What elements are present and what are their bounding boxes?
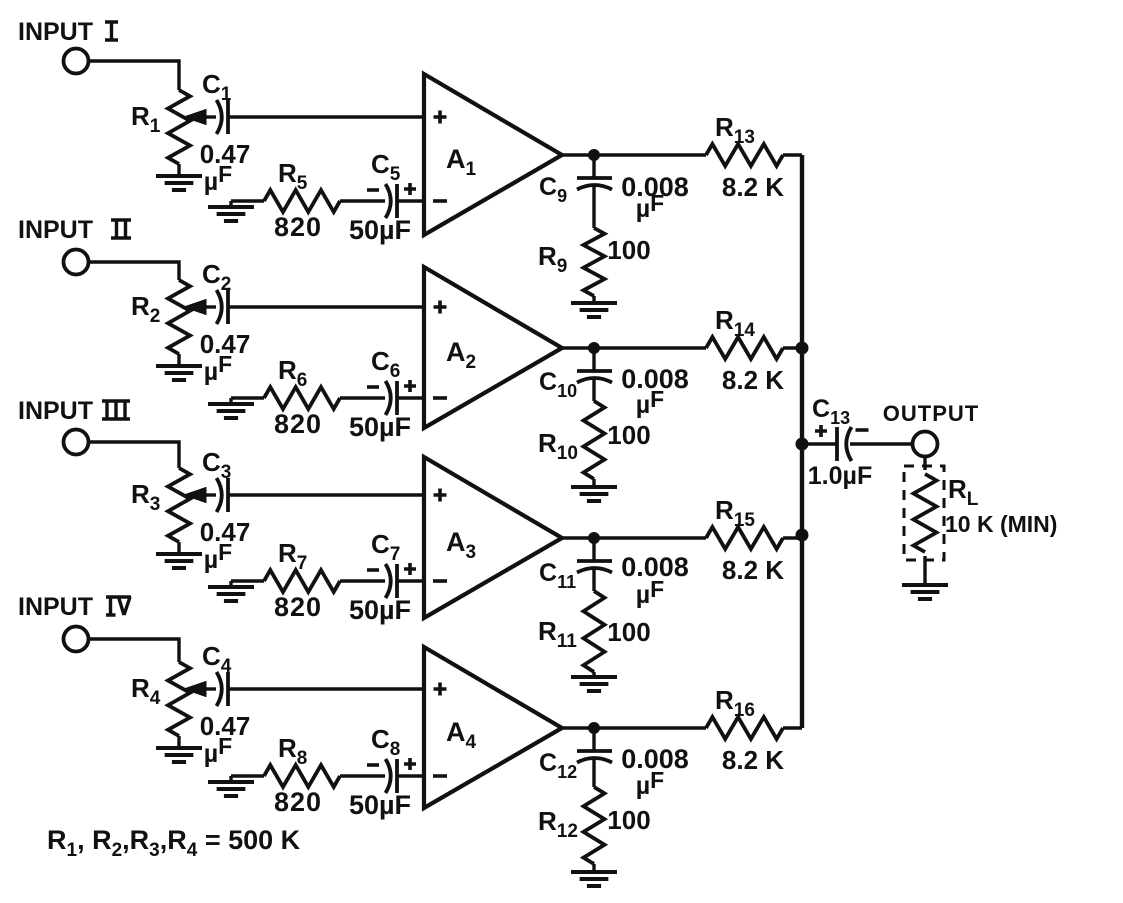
output terminal OUTPUT — [883, 401, 979, 457]
capacitor C10 (0.008 uF) — [539, 348, 689, 419]
resistor R8 (820) — [264, 733, 340, 817]
wire: C2 to A2 + input — [228, 305, 424, 308]
svg-text:100: 100 — [607, 235, 650, 265]
svg-text:10 K (MIN): 10 K (MIN) — [945, 511, 1057, 537]
resistor R15 (8.2K) — [706, 495, 784, 585]
resistor R7 (820) — [264, 538, 340, 622]
ground (below RL) — [902, 556, 948, 599]
svg-text:1.0µF: 1.0µF — [808, 462, 872, 490]
op-amp A4 — [424, 647, 562, 808]
ground (left of R7) — [208, 581, 254, 601]
svg-text:8.2 K: 8.2 K — [722, 365, 784, 395]
ground (below R3) — [156, 542, 202, 568]
resistor R9 (100) — [538, 228, 651, 296]
node: A1 output junction — [588, 149, 600, 161]
wire: input IV to R4 top — [89, 639, 179, 662]
ground (below R4) — [156, 736, 202, 762]
svg-text:INPUT: INPUT — [18, 18, 93, 46]
capacitor C1 (0.47 uF) — [200, 69, 251, 196]
ground (left of R8) — [208, 776, 254, 796]
wire: R1 wiper to C1 — [204, 115, 216, 118]
ground (below R11) — [571, 672, 617, 691]
wire: R3 wiper to C3 — [204, 493, 216, 496]
svg-text:50µF: 50µF — [349, 595, 411, 625]
wire: C13 to output terminal — [850, 442, 913, 445]
op-amp A2 — [424, 267, 562, 428]
resistor R5 (820) — [264, 158, 340, 242]
svg-text:820: 820 — [274, 592, 322, 622]
node: A4 output junction — [588, 722, 600, 734]
wire: C5 to A1 - input — [397, 199, 424, 202]
wire: C1 to A1 + input — [228, 115, 424, 118]
svg-text:50µF: 50µF — [349, 215, 411, 245]
wire: R13 to summing bus — [783, 153, 802, 156]
wire: R4 wiper to C4 — [204, 687, 216, 690]
op-amp A3 — [424, 457, 562, 618]
svg-text:8.2 K: 8.2 K — [722, 555, 784, 585]
input terminal INPUT IV — [18, 593, 131, 652]
potentiometer R4 (500K) — [131, 662, 206, 736]
svg-text:820: 820 — [274, 212, 322, 242]
svg-text:820: 820 — [274, 409, 322, 439]
svg-text:INPUT: INPUT — [18, 397, 93, 425]
svg-text:INPUT: INPUT — [18, 216, 93, 244]
wire: R15 to summing bus — [783, 536, 802, 539]
wire: R7 to C7 — [340, 579, 385, 582]
wire: R5 to C5 — [340, 199, 385, 202]
svg-text:100: 100 — [607, 805, 650, 835]
svg-text:820: 820 — [274, 787, 322, 817]
wire: A4 output to R16 — [562, 726, 706, 729]
wire: A2 output to R14 — [562, 346, 706, 349]
potentiometer R3 (500K) — [131, 468, 206, 542]
ground (left of R6) — [208, 398, 254, 418]
svg-text:8.2 K: 8.2 K — [722, 745, 784, 775]
wire: A3 output to R15 — [562, 536, 706, 539]
wire: R14 to summing bus — [783, 346, 802, 349]
svg-text:OUTPUT: OUTPUT — [883, 401, 979, 426]
resistor R11 (100) — [538, 591, 651, 672]
node: A2 output junction — [588, 342, 600, 354]
input terminal INPUT III — [18, 397, 130, 455]
wire: ground to R8 — [231, 774, 264, 777]
load resistor RL (10K MIN, dashed external) — [904, 466, 1057, 560]
capacitor C5 (50 uF electrolytic) — [349, 149, 416, 245]
resistor R13 (8.2K) — [706, 112, 784, 202]
wire: R6 to C6 — [340, 396, 385, 399]
ground (below R9) — [571, 296, 617, 317]
wire: C8 to A4 - input — [397, 774, 424, 777]
resistor R14 (8.2K) — [706, 305, 784, 395]
wire: ground to R6 — [231, 396, 264, 399]
svg-text:100: 100 — [607, 420, 650, 450]
capacitor C8 (50 uF electrolytic) — [349, 724, 416, 820]
resistor R16 (8.2K) — [706, 685, 784, 775]
wire: R16 to summing bus — [783, 726, 802, 729]
wire: A1 output to R13 — [562, 153, 706, 156]
wire: R2 wiper to C2 — [204, 305, 216, 308]
wire: R8 to C8 — [340, 774, 385, 777]
ground (left of R5) — [208, 201, 254, 221]
capacitor C6 (50 uF electrolytic) — [349, 346, 416, 442]
wire: output to RL — [923, 456, 926, 470]
wire: summing bus — [800, 155, 804, 728]
op-amp A1 — [424, 74, 562, 235]
ground (below R2) — [156, 354, 202, 380]
capacitor C9 (0.008 uF) — [539, 155, 689, 228]
node: bus junction at R15 — [796, 529, 809, 542]
wire: input II to R2 top — [89, 262, 179, 280]
node: bus junction at C13 — [796, 438, 809, 451]
capacitor C4 (0.47 uF) — [200, 641, 251, 768]
capacitor C3 (0.47 uF) — [200, 447, 251, 574]
resistor R12 (100) — [538, 787, 651, 864]
capacitor C2 (0.47 uF) — [200, 259, 251, 386]
input terminal INPUT I — [18, 18, 118, 74]
capacitor C11 (0.008 uF) — [539, 538, 689, 609]
resistor R10 (100) — [538, 401, 651, 479]
input terminal INPUT II — [18, 216, 131, 275]
wire: C6 to A2 - input — [397, 396, 424, 399]
capacitor C13 (1.0 uF electrolytic) — [808, 395, 872, 490]
node: bus junction at R14 — [796, 342, 809, 355]
wire: C4 to A4 + input — [228, 687, 424, 690]
svg-text:50µF: 50µF — [349, 412, 411, 442]
wire: input I to R1 top — [89, 61, 179, 90]
wire: C3 to A3 + input — [228, 493, 424, 496]
svg-text:50µF: 50µF — [349, 790, 411, 820]
potentiometer R2 (500K) — [131, 280, 206, 354]
capacitor C7 (50 uF electrolytic) — [349, 529, 416, 625]
svg-text:8.2 K: 8.2 K — [722, 172, 784, 202]
ground (below R10) — [571, 479, 617, 501]
node: A3 output junction — [588, 532, 600, 544]
capacitor C12 (0.008 uF) — [539, 728, 689, 800]
svg-text:INPUT: INPUT — [18, 593, 93, 621]
ground (below R12) — [571, 864, 617, 886]
wire: bus to C13 — [802, 442, 836, 445]
wire: ground to R7 — [231, 579, 264, 582]
wire: input III to R3 top — [89, 442, 179, 468]
ground (below R1) — [156, 164, 202, 190]
wire: ground to R5 — [231, 199, 264, 202]
potentiometer R1 (500K) — [131, 90, 206, 164]
resistor R6 (820) — [264, 355, 340, 439]
wire: C7 to A3 - input — [397, 579, 424, 582]
svg-text:100: 100 — [607, 617, 650, 647]
